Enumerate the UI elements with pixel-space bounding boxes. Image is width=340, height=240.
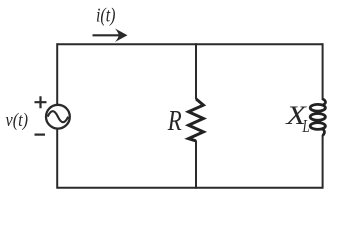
inductor XL loop1 — [310, 104, 325, 111]
inductor XL loop2 — [310, 114, 325, 121]
wire top — [57, 43, 322, 45]
wire middle lower — [195, 140, 197, 188]
source V1 circle — [46, 105, 70, 129]
wire middle upper — [195, 43, 197, 99]
source V1 sine — [48, 111, 69, 122]
svg-text:i(t): i(t) — [96, 5, 116, 26]
plus sign — [35, 96, 47, 108]
current arrow — [93, 29, 128, 43]
wire right lower — [322, 135, 324, 189]
minus sign — [35, 134, 46, 136]
inductor XL loop3 — [310, 123, 325, 130]
inductor XL entry hook — [323, 99, 326, 105]
svg-text:L: L — [302, 116, 310, 136]
resistor R — [189, 99, 204, 141]
wire right upper — [322, 43, 324, 100]
wire left upper — [56, 43, 58, 105]
wire left lower — [56, 129, 58, 189]
wire bottom — [57, 187, 322, 189]
inductor XL exit hook — [321, 129, 325, 136]
svg-text:v(t): v(t) — [6, 110, 29, 131]
svg-text:R: R — [167, 105, 182, 137]
